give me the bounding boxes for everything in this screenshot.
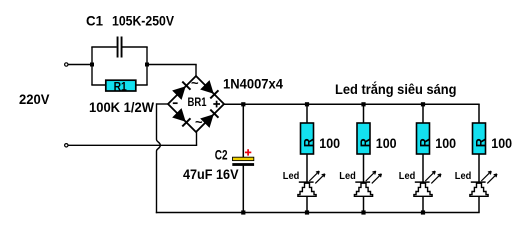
wire hop over input line 2 (157, 140, 161, 152)
LED D1 body (298, 183, 316, 196)
wire bridge left corner to left vertical (157, 103, 169, 105)
svg-text:Led: Led (283, 171, 300, 182)
svg-text:100K 1/2W: 100K 1/2W (89, 99, 155, 115)
svg-text:~: ~ (195, 115, 203, 130)
wire C1 loop top left (91, 46, 116, 48)
capacitor C1 plates (117, 37, 119, 58)
wire branch 2 lower (363, 196, 365, 212)
svg-text:C2: C2 (215, 147, 228, 163)
svg-text:Led: Led (455, 171, 472, 182)
svg-text:100: 100 (376, 135, 397, 151)
wire branch 1 upper (306, 104, 308, 123)
wire C1 loop left vertical (91, 47, 93, 85)
wire bridge bottom corner down (196, 132, 198, 145)
wire branch 2 middle (363, 154, 365, 182)
svg-text:BR1: BR1 (188, 96, 207, 109)
node dot top rail branch 1 (305, 102, 309, 106)
wire bottom rail (156, 212, 480, 214)
resistor R branch 4 (473, 123, 486, 154)
wire branch 3 upper (422, 104, 424, 123)
svg-text:R: R (474, 138, 488, 147)
LED D3 emission arrows (425, 171, 435, 181)
resistor R branch 3 (417, 123, 430, 154)
LED D3 cathode bar (415, 181, 430, 183)
svg-text:R: R (359, 138, 373, 147)
resistor R branch 1 (301, 123, 314, 154)
svg-text:Led: Led (339, 171, 356, 182)
diode D1 top-right (201, 81, 213, 93)
LED D4 cathode bar (471, 181, 486, 183)
svg-text:220V: 220V (19, 91, 50, 107)
capacitor C2 positive plate (233, 157, 254, 160)
wire left vertical lower (hop to bottom rail) (156, 151, 158, 213)
resistor R branch 2 (357, 123, 370, 154)
wire to bridge top (147, 64, 197, 66)
node dot top rail branch 2 (361, 102, 365, 106)
wire branch 3 lower (422, 196, 424, 212)
node dot top rail branch 3 (421, 102, 425, 106)
svg-text:105K-250V: 105K-250V (112, 13, 175, 29)
wire input line 2 (69, 144, 198, 146)
label red plus (245, 151, 251, 153)
node dot bottom rail branch 1 (305, 210, 309, 214)
svg-text:100: 100 (319, 135, 340, 151)
wire branch 4 upper (478, 104, 480, 123)
svg-text:R: R (418, 138, 432, 147)
wire C2 upper (242, 104, 244, 157)
LED D2 cathode bar (355, 181, 370, 183)
wire C1 loop bottom (91, 84, 147, 86)
terminal J1 (65, 63, 68, 66)
node junction dot A (90, 63, 94, 67)
wire C1 loop right vertical (146, 47, 148, 85)
bridge BR1 diamond (168, 76, 224, 132)
wire branch 4 middle (478, 154, 480, 182)
node dot bottom rail branch 3 (421, 210, 425, 214)
wire branch 2 upper (363, 104, 365, 123)
diode D4 bottom-left (173, 109, 185, 121)
diode D3 top-left (173, 87, 185, 99)
LED D2 emission arrows (366, 171, 376, 181)
node junction dot B (145, 63, 149, 67)
wire left vertical upper (to hop) (156, 103, 158, 139)
svg-text:~: ~ (191, 76, 199, 91)
resistor R1 (106, 80, 136, 91)
label - minus (173, 102, 178, 104)
wire top rail (223, 103, 479, 105)
wire branch 4 lower (478, 196, 480, 212)
svg-text:R: R (302, 138, 316, 147)
svg-text:100: 100 (435, 135, 456, 151)
svg-text:R1: R1 (114, 79, 127, 93)
svg-text:100: 100 (491, 135, 512, 151)
LED D1 cathode bar (299, 181, 314, 183)
label + plus (213, 103, 220, 105)
capacitor C2 negative plate (232, 163, 254, 166)
node dot bottom rail C2 (241, 210, 245, 214)
LED D4 emission arrows (481, 171, 491, 181)
node dot bottom rail branch 2 (361, 210, 365, 214)
svg-text:47uF 16V: 47uF 16V (183, 166, 239, 182)
wire input line 1 (69, 64, 93, 66)
svg-text:C1: C1 (86, 13, 103, 29)
LED D1 emission arrows (309, 171, 319, 181)
svg-text:1N4007x4: 1N4007x4 (223, 76, 283, 92)
LED D3 body (414, 183, 432, 196)
LED D2 body (354, 183, 372, 196)
wire C1 loop top right (123, 46, 148, 48)
svg-text:Led trắng siêu sáng: Led trắng siêu sáng (335, 80, 457, 97)
diode D2 bottom-right (201, 115, 213, 127)
svg-text:Led: Led (399, 171, 416, 182)
terminal J2 (65, 144, 68, 147)
wire branch 1 middle (306, 154, 308, 182)
wire branch 3 middle (422, 154, 424, 182)
wire branch 1 lower (306, 196, 308, 212)
LED D4 body (470, 183, 488, 196)
wire C2 lower (242, 165, 244, 212)
node dot top rail C2 (241, 102, 245, 106)
